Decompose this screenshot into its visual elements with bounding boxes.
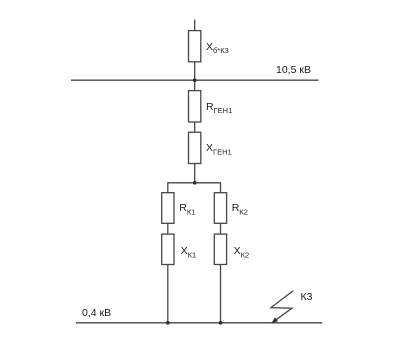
wire XГЕН1 down to split (194, 164, 196, 183)
resistor RК2 (214, 193, 226, 224)
svg-text:К3: К3 (301, 291, 313, 303)
node junction right on 0,4 кВ bus (219, 321, 223, 325)
bus 10,5 кВ (71, 79, 319, 81)
svg-text:RК1: RК1 (179, 202, 195, 216)
svg-text:10,5 кВ: 10,5 кВ (276, 64, 311, 76)
wire RГЕН1 to XГЕН1 (194, 122, 196, 132)
reactance XК1 (162, 234, 174, 264)
wire top lead (194, 20, 196, 31)
node junction on 10,5 кВ bus (193, 78, 197, 82)
node junction at split (193, 181, 197, 185)
wire XК1 down to 0,4 кВ bus (167, 265, 169, 323)
wire left branch drop (167, 182, 169, 193)
wire split bar (168, 182, 221, 184)
bus 0,4 кВ (76, 322, 322, 324)
wire right branch drop (220, 182, 222, 193)
svg-text:RК2: RК2 (232, 202, 248, 216)
short-circuit bolt К3 (271, 291, 293, 323)
reactance XГЕН1 (189, 132, 201, 163)
arrowhead of bolt (272, 317, 279, 323)
svg-text:XГЕН1: XГЕН1 (206, 142, 232, 156)
svg-text:XК2: XК2 (234, 245, 250, 259)
wire Xб*К3 to RГЕН1 (194, 62, 196, 91)
resistor Xб*К3 (189, 31, 201, 62)
node junction left on 0,4 кВ bus (166, 321, 170, 325)
svg-text:XК1: XК1 (181, 245, 197, 259)
svg-text:Xб*К3: Xб*К3 (206, 41, 229, 55)
resistor RК1 (162, 193, 174, 224)
svg-text:0,4 кВ: 0,4 кВ (82, 307, 111, 319)
wire XК2 down to 0,4 кВ bus (220, 265, 222, 323)
reactance XК2 (214, 234, 226, 264)
wire RК2 to XК2 (220, 223, 222, 234)
wire RК1 to XК1 (167, 223, 169, 234)
resistor RГЕН1 (189, 91, 201, 122)
svg-text:RГЕН1: RГЕН1 (206, 101, 232, 115)
